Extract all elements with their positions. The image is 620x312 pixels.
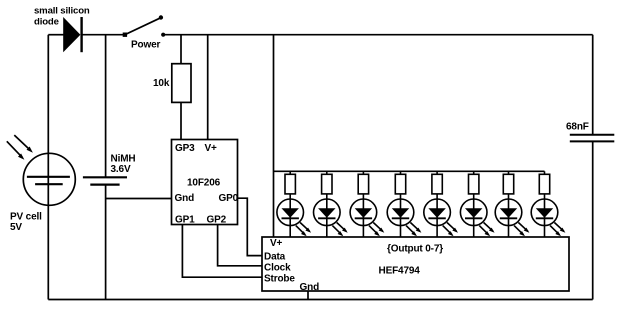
svg-text:GP0: GP0 (219, 193, 239, 204)
LED channels: resistor + LED + wire for each of 8 outputs (277, 171, 566, 237)
light arrow 2 into PV cell (7, 141, 25, 159)
LED resistor R6 (output 4) (432, 171, 442, 194)
wire GP1 to Strobe (182, 225, 262, 278)
svg-text:PV cell: PV cell (10, 212, 42, 223)
light arrow 1 into PV cell (14, 135, 33, 153)
svg-text:10k: 10k (153, 78, 170, 89)
wire left vertical (PV cell branch) (47, 35, 49, 300)
svg-text:Power: Power (131, 40, 161, 51)
LED D6 (output 4) (424, 194, 458, 237)
wire top rail right corner down to capacitor (592, 35, 594, 135)
switch S1 Power (123, 15, 166, 37)
svg-text:10F206: 10F206 (187, 178, 221, 189)
svg-text:Gnd: Gnd (300, 282, 320, 293)
wire GP2 to Clock (218, 225, 262, 266)
wire top rail left segment (48, 34, 63, 36)
LED D9 (output 7) (531, 194, 565, 237)
wire NiMH to IC Gnd (106, 198, 172, 200)
battery BT2 NiMH 3.6V (83, 35, 127, 300)
svg-text:HEF4794: HEF4794 (379, 266, 421, 277)
svg-text:NiMH: NiMH (111, 154, 136, 165)
LED resistor R3 (output 1) (322, 171, 332, 194)
svg-text:{Output 0-7}: {Output 0-7} (387, 244, 443, 255)
svg-text:5V: 5V (10, 222, 22, 233)
svg-text:diode: diode (34, 17, 59, 28)
LED resistor R4 (output 2) (358, 171, 368, 194)
wire rail to resistor R1 (180, 35, 182, 64)
svg-text:Strobe: Strobe (264, 274, 295, 285)
wire rail to LED rail and HEF V+ (273, 35, 275, 237)
wire diode to switch (82, 34, 125, 36)
diode D1 (small silicon diode) (63, 17, 81, 52)
svg-text:Clock: Clock (264, 263, 291, 274)
wire capacitor to bottom rail (592, 142, 594, 300)
wire top rail right segment (163, 34, 593, 36)
svg-text:3.6V: 3.6V (111, 164, 131, 175)
LED resistor R7 (output 5) (469, 171, 479, 194)
IC U1 10F206 (172, 140, 238, 225)
LED D3 (output 1) (314, 194, 348, 237)
svg-text:GP2: GP2 (207, 215, 227, 226)
wire GP0 to Data (238, 198, 263, 255)
wire HEF Gnd to bottom rail (307, 291, 309, 300)
LED D8 (output 6) (495, 194, 529, 237)
wire rail to IC V+ (207, 35, 209, 140)
resistor R1 10k (172, 64, 191, 103)
svg-text:Gnd: Gnd (175, 193, 195, 204)
IC U2 HEF4794 (262, 237, 569, 291)
svg-text:V+: V+ (205, 143, 218, 154)
svg-text:GP3: GP3 (175, 143, 195, 154)
svg-text:68nF: 68nF (566, 122, 589, 133)
svg-text:V+: V+ (270, 238, 283, 249)
capacitor C1 68nF (570, 135, 615, 142)
LED resistor R8 (output 6) (503, 171, 513, 194)
LED D5 (output 3) (387, 194, 421, 237)
LED rail wire (274, 170, 545, 172)
LED D4 (output 2) (350, 194, 384, 237)
wire bottom rail (48, 299, 592, 301)
LED D2 (output 0) (277, 194, 311, 237)
svg-text:small silicon: small silicon (34, 6, 90, 17)
LED resistor R5 (output 3) (395, 171, 405, 194)
svg-text:GP1: GP1 (175, 215, 195, 226)
LED D7 (output 5) (460, 194, 494, 237)
LED resistor R9 (output 7) (539, 171, 549, 194)
PV cell BT1 (23, 153, 75, 205)
wire resistor R1 to GP3 (180, 102, 182, 139)
LED resistor R2 (output 0) (285, 171, 295, 194)
svg-text:Data: Data (264, 252, 286, 263)
